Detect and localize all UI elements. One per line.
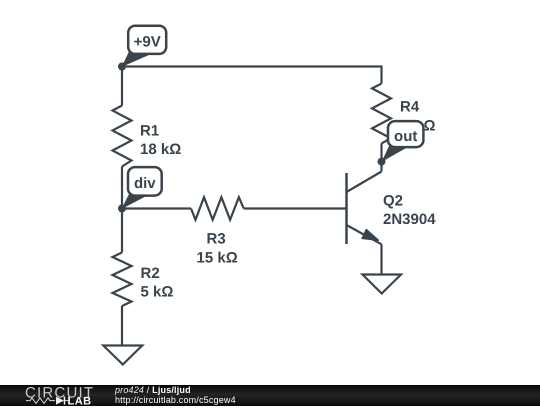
svg-text:R1: R1: [140, 123, 159, 140]
node out (junction dot): [378, 158, 386, 166]
svg-text:R3: R3: [207, 230, 226, 247]
wire: div node to R3 left: [122, 207, 191, 209]
ground (left, below R2): [103, 346, 142, 365]
transistor Q2 (NPN 2N3904): [347, 172, 382, 245]
resistor R1: [113, 106, 132, 167]
label Q2 2N3904: [383, 193, 436, 229]
resistor R4: [372, 84, 391, 144]
wire: R4 bottom to out node: [380, 143, 382, 161]
wire: out node to Q2 collector: [380, 162, 382, 172]
label R2 value 5 kΩ: [141, 265, 174, 301]
svg-text:LAB: LAB: [68, 395, 92, 404]
wire: R3 right to Q2 base: [244, 207, 347, 209]
resistor R3: [191, 197, 244, 220]
node div (junction dot): [118, 205, 126, 213]
svg-text:div: div: [134, 175, 156, 192]
net flag out (box and text): [388, 121, 423, 147]
ground (right, below Q2 emitter): [363, 275, 402, 294]
label R4: [400, 99, 420, 116]
net flag div (box and text): [128, 167, 162, 196]
net flag out (tail): [382, 145, 408, 162]
wire: R2 bottom to ground: [121, 306, 123, 346]
wire top horizontal: +9V node to top-right corner and down to R4: [122, 67, 382, 84]
svg-text:+9V: +9V: [134, 34, 161, 51]
footer bar: [0, 385, 540, 406]
svg-text:15 kΩ: 15 kΩ: [197, 250, 238, 267]
net flag +9V (box and text): [128, 26, 166, 54]
svg-text:R2: R2: [141, 265, 160, 282]
wire: R1 bottom to div node: [121, 167, 123, 209]
wire: +9V node down to R1 top: [121, 67, 123, 106]
svg-text:5 kΩ: 5 kΩ: [141, 284, 174, 301]
svg-text:out: out: [394, 128, 417, 145]
label R1 value 18 kΩ: [140, 123, 181, 159]
resistor R2: [113, 253, 132, 307]
CircuitLab logo: [24, 385, 114, 410]
wire: div node down to R2 top: [121, 209, 123, 253]
wire: Q2 emitter to ground: [380, 244, 382, 274]
node +9V (net +9V junction dot): [118, 63, 126, 71]
net flag +9V (tail): [122, 50, 151, 68]
svg-text:R4: R4: [400, 99, 420, 116]
net flag div (tail): [122, 193, 148, 209]
svg-text:2N3904: 2N3904: [383, 211, 436, 228]
label R3 value 15 kΩ: [197, 230, 238, 266]
label R4 value 470 Ω (partially hidden by out flag): [394, 118, 435, 135]
svg-text:Q2: Q2: [383, 193, 403, 210]
svg-text:18 kΩ: 18 kΩ: [140, 141, 181, 158]
footer text pro424 / Ljus/ljud and url: [115, 386, 236, 405]
